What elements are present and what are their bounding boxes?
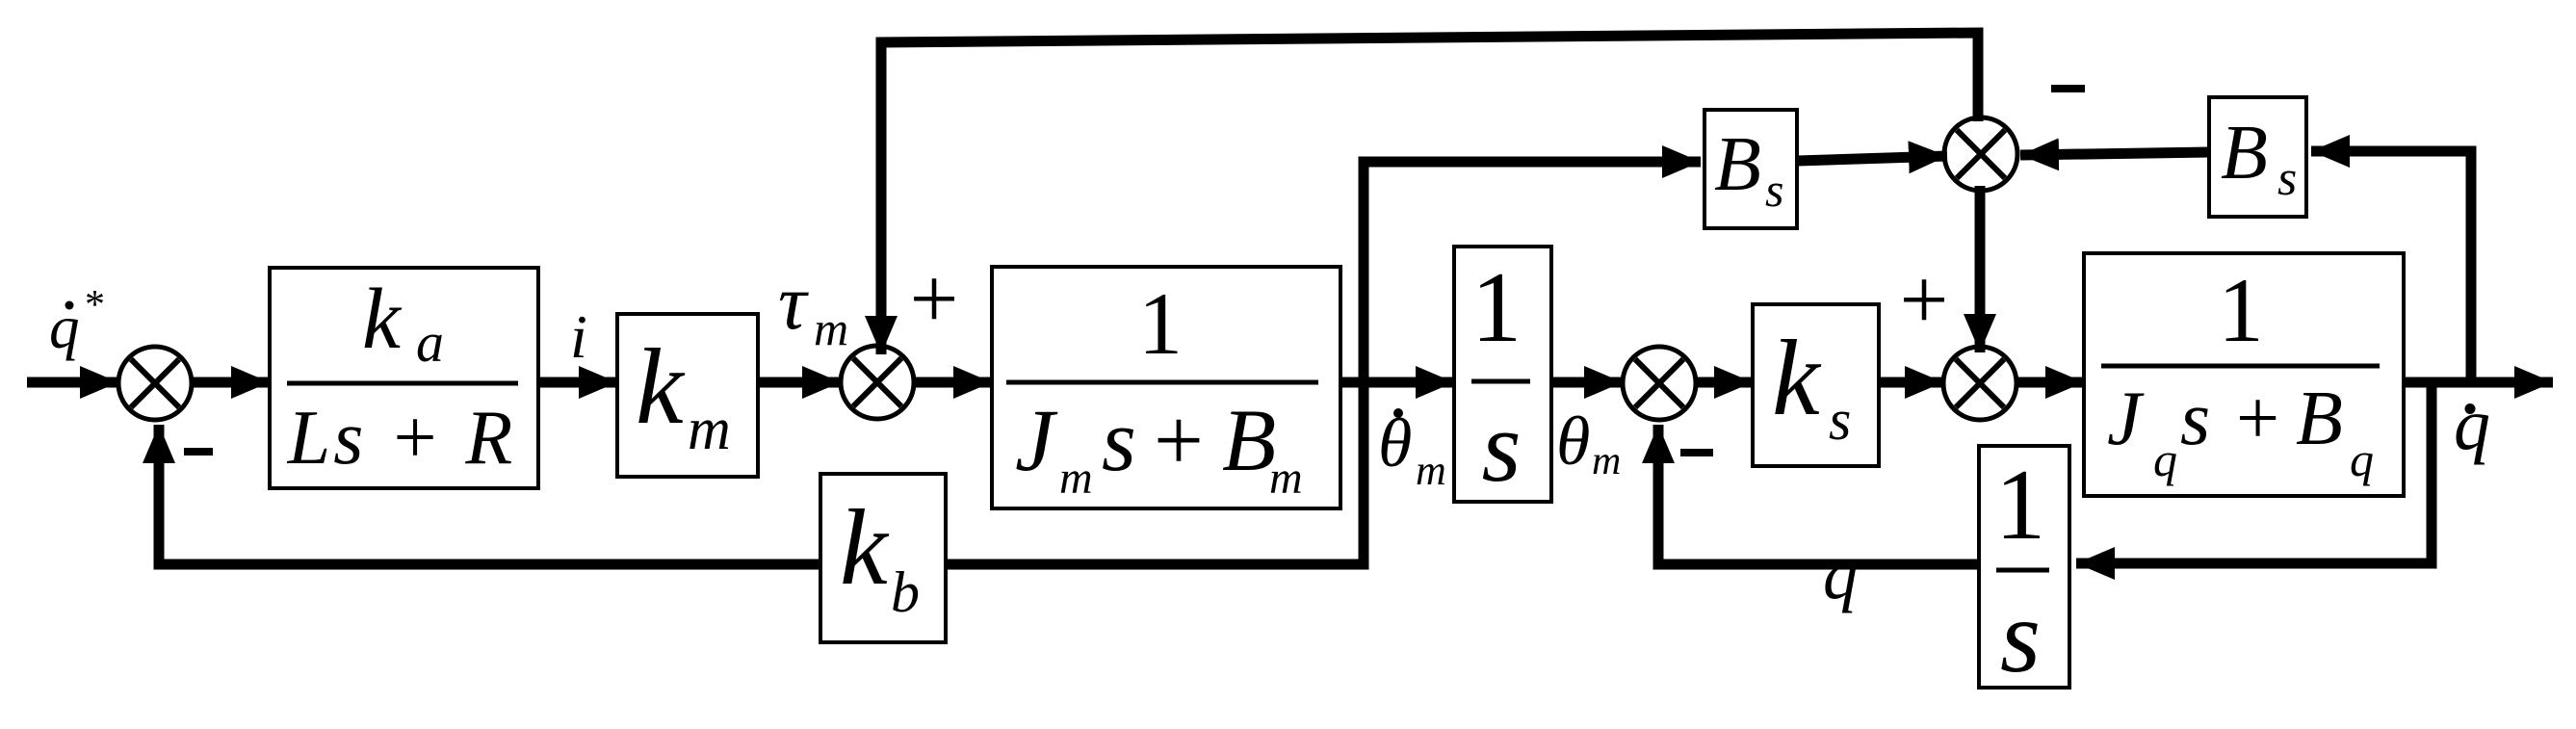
sign minus at S3	[1680, 449, 1713, 456]
svg-text:+: +	[1900, 252, 1949, 348]
svg-text:q: q	[1823, 536, 1858, 613]
svg-text:s: s	[1482, 390, 1522, 503]
wire thetadot branch up to Bs left and down to kb	[946, 162, 1701, 564]
wire G3 to G4 node thetadot	[1340, 378, 1454, 388]
wire S3 to G5	[1694, 378, 1753, 388]
wire qdot node up to Bs right	[2311, 151, 2471, 382]
svg-text:s: s	[2180, 377, 2210, 461]
svg-text:q: q	[49, 294, 80, 361]
wire qdot node down to G7	[2076, 382, 2432, 563]
svg-text:m: m	[1059, 453, 1093, 504]
summing junction S1	[118, 347, 192, 420]
label thetadot_m	[1378, 404, 1446, 494]
svg-text:1: 1	[2218, 259, 2264, 361]
svg-text:q: q	[2153, 432, 2177, 486]
svg-text:b: b	[891, 560, 920, 624]
wire G4 to S3	[1551, 378, 1623, 388]
svg-text:B: B	[1714, 122, 1761, 207]
svg-text:s: s	[1102, 391, 1136, 489]
wire G7 q to S3	[1658, 425, 1979, 564]
wire S1 to G1	[190, 378, 270, 388]
wire Bs left to S5	[1797, 156, 1947, 161]
svg-text:m: m	[1269, 453, 1303, 504]
svg-text:+: +	[910, 251, 959, 347]
svg-text:B: B	[1222, 391, 1276, 489]
svg-text:s: s	[1829, 388, 1851, 452]
svg-text:s: s	[1765, 163, 1783, 217]
svg-text:1: 1	[1471, 250, 1522, 363]
svg-text:m: m	[688, 397, 731, 462]
svg-text:k: k	[840, 488, 890, 608]
svg-text:q: q	[2350, 432, 2374, 486]
block G1 ka/(Ls+R)	[270, 268, 538, 488]
block G8 kb back-emf	[820, 474, 946, 642]
block G2 km	[617, 314, 758, 477]
block G9 Bs left damping	[1704, 110, 1797, 228]
label qdotstar input	[49, 283, 105, 361]
block G7 integrator 1/s (link)	[1979, 446, 2069, 694]
sign minus at S5	[2051, 85, 2085, 92]
svg-text:1: 1	[1995, 448, 2046, 560]
wire S5 down to S4	[1975, 186, 1986, 352]
wire G2 to S2	[758, 378, 841, 388]
block G10 Bs right damping	[2209, 97, 2306, 217]
wire top feedback S5 up over to S2	[881, 33, 1978, 354]
wire kb to S1	[159, 425, 820, 564]
svg-text:s: s	[2277, 151, 2297, 206]
svg-text:τ: τ	[778, 258, 809, 346]
svg-text:k: k	[362, 272, 403, 367]
svg-text:k: k	[1772, 319, 1822, 438]
svg-text:θ: θ	[1556, 403, 1590, 480]
svg-text:q: q	[2454, 384, 2490, 465]
svg-text:*: *	[85, 283, 105, 327]
sign minus at S1	[184, 448, 213, 456]
wire G6 to output	[2404, 378, 2553, 388]
block G6 link 1/(Jq s+Bq)	[2084, 253, 2404, 496]
svg-text:J: J	[2107, 377, 2145, 461]
summing junction S4	[1943, 347, 2017, 420]
svg-text:m: m	[1416, 447, 1446, 494]
svg-text:i: i	[570, 302, 587, 371]
svg-text:k: k	[636, 327, 686, 447]
label theta_m	[1556, 403, 1621, 483]
svg-text:s: s	[2000, 580, 2041, 694]
svg-text:+: +	[2236, 377, 2279, 461]
wire S2 to G3	[912, 378, 992, 388]
summing junction S5 top	[1944, 117, 2017, 191]
svg-text:Ls + R: Ls + R	[287, 396, 515, 481]
block G5 ks	[1753, 304, 1879, 466]
block G4 integrator 1/s (motor)	[1454, 247, 1551, 503]
svg-text:B: B	[2296, 377, 2343, 461]
svg-text:m: m	[814, 301, 848, 355]
label qdot output	[2454, 384, 2490, 465]
svg-text:+: +	[1154, 391, 1204, 489]
wire G1 to G2	[538, 378, 617, 388]
wire G5 to S4	[1879, 378, 1943, 388]
svg-text:m: m	[1592, 439, 1621, 483]
svg-text:J: J	[1015, 391, 1058, 489]
svg-text:1: 1	[1138, 274, 1183, 373]
wire input to S1	[27, 378, 118, 388]
summing junction S3	[1623, 347, 1696, 420]
label tau_m	[778, 258, 848, 355]
summing junction S2	[841, 346, 914, 419]
svg-text:a: a	[416, 311, 444, 374]
svg-text:B: B	[2221, 111, 2268, 195]
wire S4 to G6	[2015, 378, 2084, 388]
wire Bs right to S5	[2020, 152, 2209, 155]
block G3 motor 1/(Jm s+Bm)	[992, 267, 1340, 508]
